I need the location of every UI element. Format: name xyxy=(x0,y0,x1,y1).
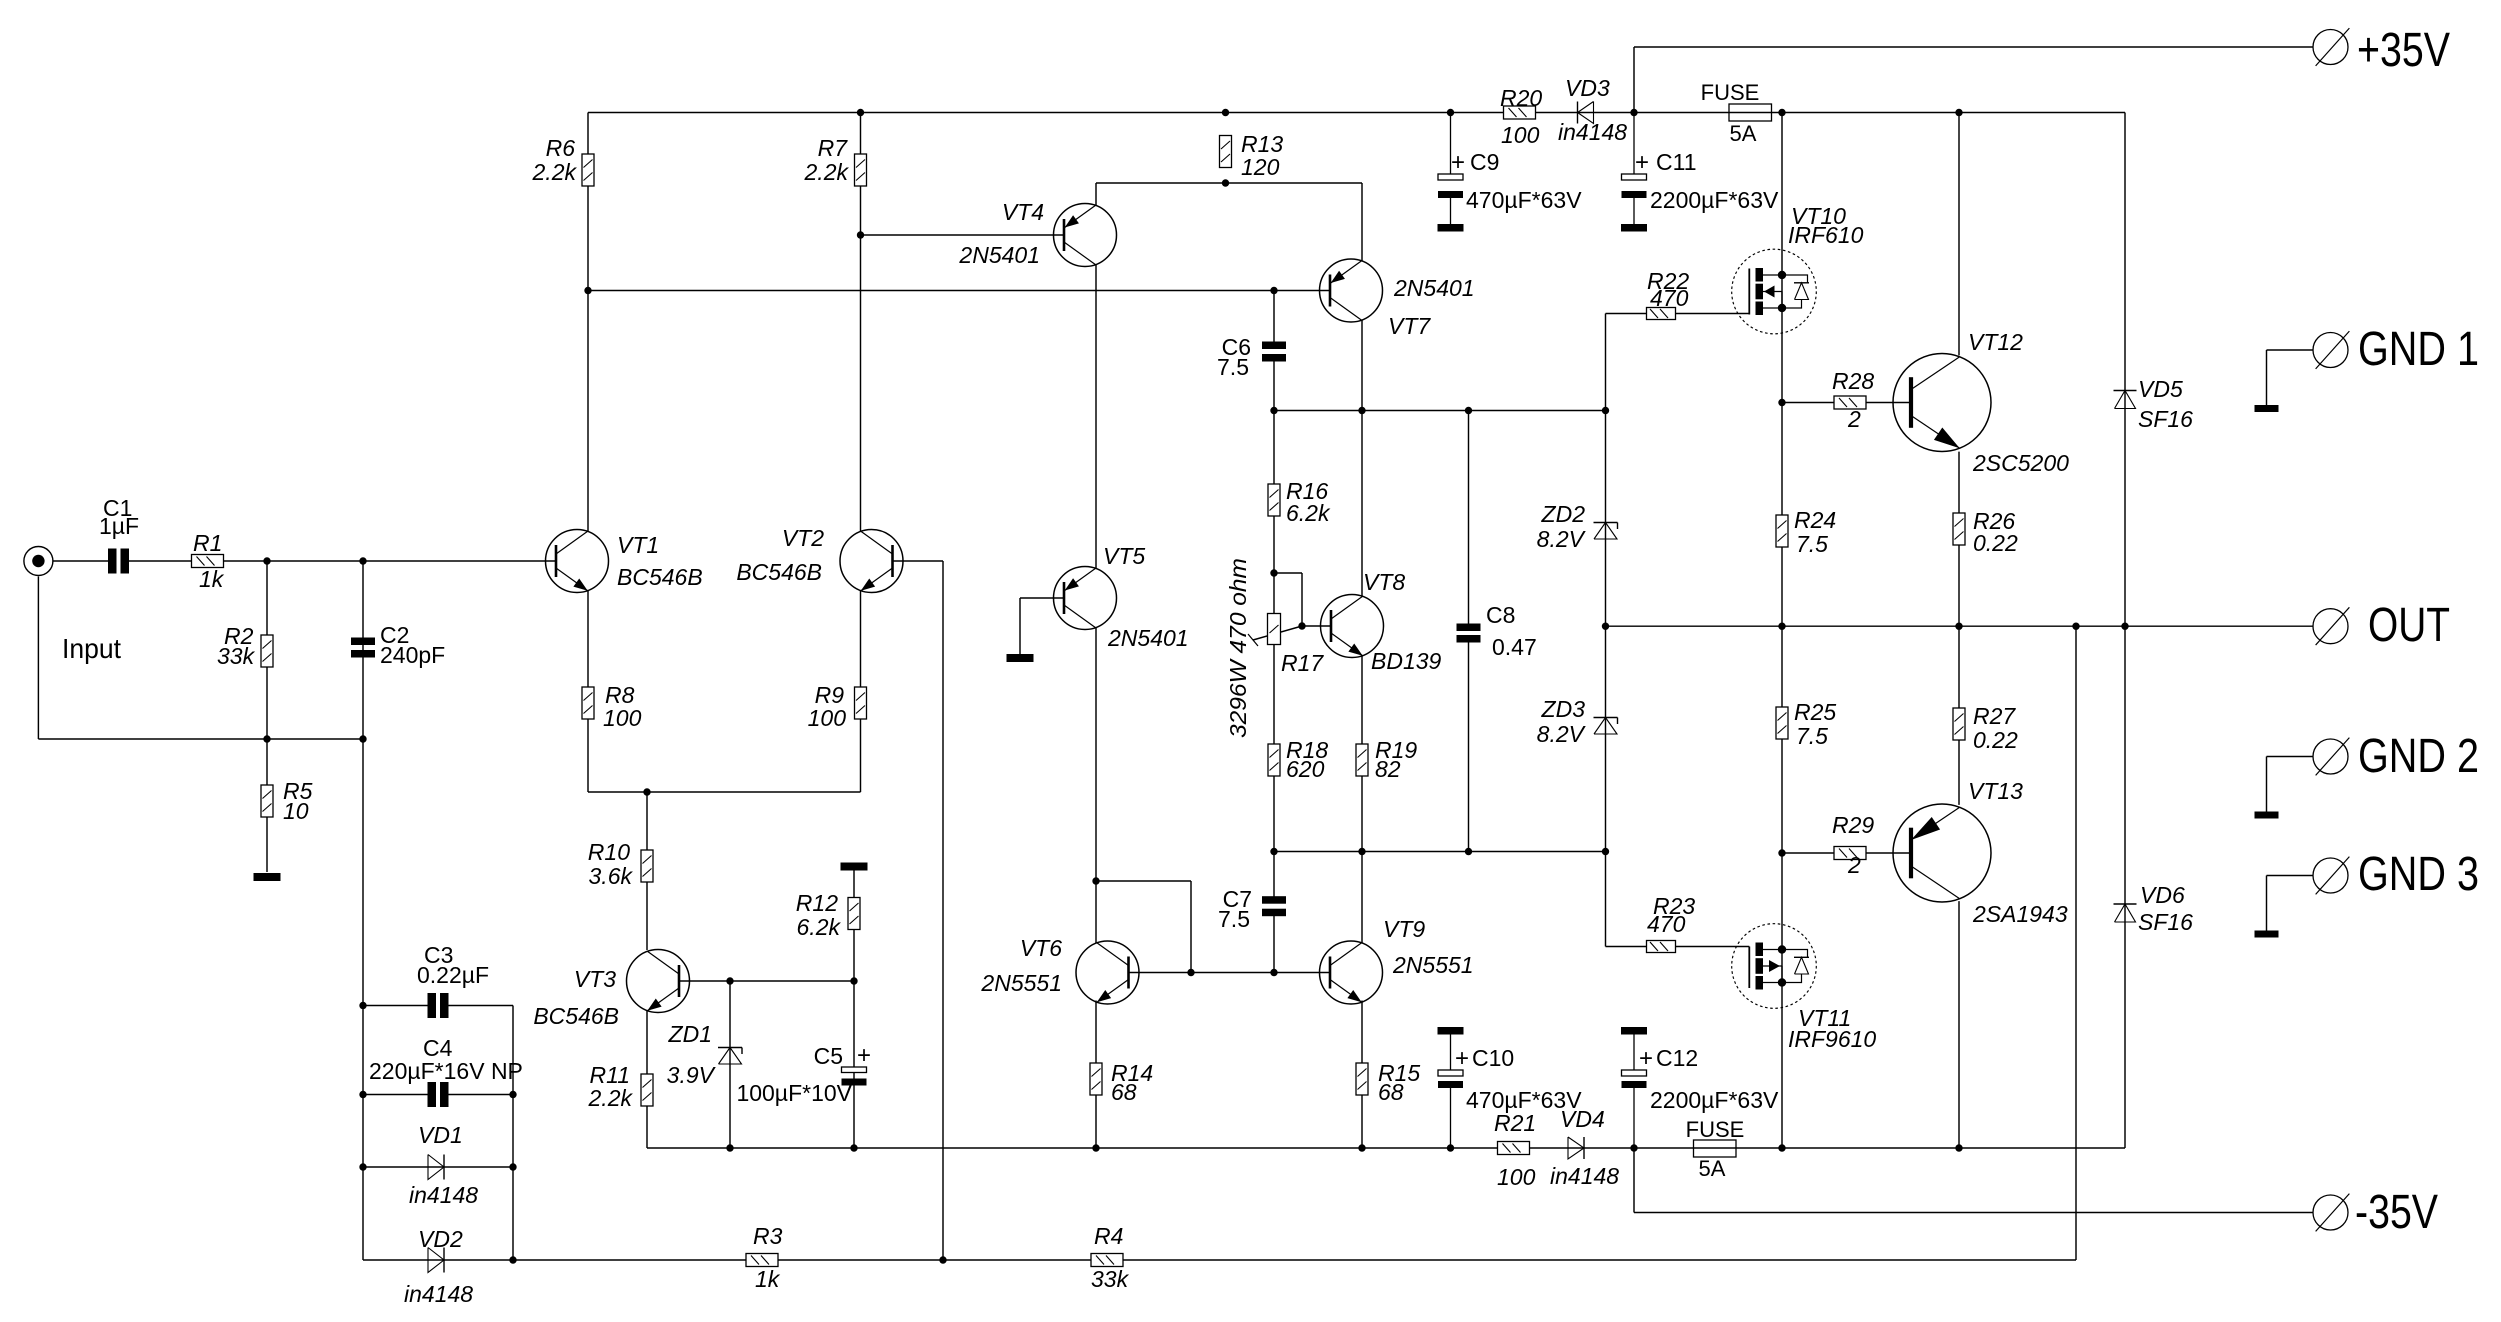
svg-text:620: 620 xyxy=(1286,756,1325,782)
svg-text:R29: R29 xyxy=(1832,812,1874,838)
svg-text:1k: 1k xyxy=(755,1266,781,1292)
svg-text:6.2k: 6.2k xyxy=(797,914,842,940)
svg-text:VT8: VT8 xyxy=(1363,569,1405,595)
svg-text:470: 470 xyxy=(1647,911,1686,937)
svg-text:100: 100 xyxy=(1497,1164,1536,1190)
svg-text:in4148: in4148 xyxy=(404,1281,473,1307)
svg-text:in4148: in4148 xyxy=(409,1182,478,1208)
svg-text:7.5: 7.5 xyxy=(1796,723,1828,749)
svg-text:R21: R21 xyxy=(1494,1110,1536,1136)
svg-text:VD3: VD3 xyxy=(1565,75,1610,101)
svg-text:VD5: VD5 xyxy=(2138,376,2183,402)
svg-text:R6: R6 xyxy=(546,135,576,161)
svg-text:VT2: VT2 xyxy=(782,525,824,551)
svg-text:7.5: 7.5 xyxy=(1796,531,1828,557)
svg-text:R24: R24 xyxy=(1794,507,1836,533)
svg-text:VT1: VT1 xyxy=(617,532,659,558)
svg-text:VT9: VT9 xyxy=(1383,916,1425,942)
svg-text:10: 10 xyxy=(283,798,309,824)
svg-text:ZD2: ZD2 xyxy=(1541,501,1586,527)
svg-text:2N5551: 2N5551 xyxy=(980,970,1062,996)
svg-text:+: + xyxy=(1451,149,1465,176)
svg-text:8.2V: 8.2V xyxy=(1537,721,1587,747)
svg-text:VT6: VT6 xyxy=(1020,935,1062,961)
svg-text:VT5: VT5 xyxy=(1103,543,1145,569)
svg-text:100: 100 xyxy=(808,705,847,731)
svg-text:C8: C8 xyxy=(1486,602,1515,628)
svg-text:33k: 33k xyxy=(217,643,256,669)
svg-text:VT12: VT12 xyxy=(1968,329,2023,355)
svg-text:R4: R4 xyxy=(1094,1223,1123,1249)
svg-text:SF16: SF16 xyxy=(2138,406,2193,432)
svg-text:5A: 5A xyxy=(1699,1156,1726,1181)
svg-text:0.47: 0.47 xyxy=(1492,634,1537,660)
svg-text:OUT: OUT xyxy=(2368,599,2450,652)
svg-text:120: 120 xyxy=(1241,154,1280,180)
svg-text:0.22: 0.22 xyxy=(1973,530,2018,556)
svg-text:VD1: VD1 xyxy=(418,1122,463,1148)
svg-text:7.5: 7.5 xyxy=(1218,906,1250,932)
svg-text:+: + xyxy=(1635,149,1649,176)
svg-text:2.2k: 2.2k xyxy=(532,159,578,185)
svg-text:0.22: 0.22 xyxy=(1973,727,2018,753)
svg-text:100: 100 xyxy=(603,705,642,731)
svg-text:68: 68 xyxy=(1378,1079,1404,1105)
svg-text:BC546B: BC546B xyxy=(617,564,703,590)
svg-text:C11: C11 xyxy=(1656,149,1697,175)
svg-text:7.5: 7.5 xyxy=(1217,354,1249,380)
svg-text:8.2V: 8.2V xyxy=(1537,526,1587,552)
svg-text:33k: 33k xyxy=(1091,1266,1130,1292)
svg-text:2.2k: 2.2k xyxy=(588,1085,634,1111)
svg-text:ZD1: ZD1 xyxy=(668,1021,712,1047)
svg-text:100: 100 xyxy=(1501,122,1540,148)
svg-text:IRF610: IRF610 xyxy=(1788,222,1864,248)
svg-text:470µF*63V: 470µF*63V xyxy=(1466,187,1582,213)
svg-text:2200µF*63V: 2200µF*63V xyxy=(1650,1087,1779,1113)
svg-text:220µF*16V NP: 220µF*16V NP xyxy=(369,1058,523,1084)
svg-text:1k: 1k xyxy=(199,566,225,592)
svg-text:GND 1: GND 1 xyxy=(2358,323,2479,376)
svg-text:FUSE: FUSE xyxy=(1686,1117,1745,1142)
svg-text:BD139: BD139 xyxy=(1371,648,1442,674)
svg-text:+: + xyxy=(1455,1045,1469,1072)
svg-text:VD6: VD6 xyxy=(2140,882,2185,908)
svg-text:R17: R17 xyxy=(1281,650,1324,676)
svg-text:VD2: VD2 xyxy=(418,1226,463,1252)
svg-text:6.2k: 6.2k xyxy=(1286,500,1331,526)
svg-text:GND 2: GND 2 xyxy=(2358,730,2479,783)
svg-text:SF16: SF16 xyxy=(2138,909,2193,935)
svg-text:470µF*63V: 470µF*63V xyxy=(1466,1087,1582,1113)
svg-text:C12: C12 xyxy=(1656,1045,1698,1071)
svg-text:+: + xyxy=(857,1042,871,1069)
svg-text:R1: R1 xyxy=(193,530,222,556)
svg-text:1µF: 1µF xyxy=(99,513,139,539)
svg-text:2N5401: 2N5401 xyxy=(1107,625,1189,651)
svg-text:470: 470 xyxy=(1650,285,1689,311)
svg-text:FUSE: FUSE xyxy=(1701,80,1760,105)
svg-text:2SA1943: 2SA1943 xyxy=(1972,901,2068,927)
svg-text:2N5551: 2N5551 xyxy=(1392,952,1474,978)
svg-text:R7: R7 xyxy=(818,135,849,161)
svg-text:C10: C10 xyxy=(1472,1045,1514,1071)
svg-text:3.9V: 3.9V xyxy=(667,1062,717,1088)
svg-text:C9: C9 xyxy=(1470,149,1499,175)
svg-text:2N5401: 2N5401 xyxy=(1393,275,1475,301)
svg-text:2SC5200: 2SC5200 xyxy=(1972,450,2069,476)
svg-text:2200µF*63V: 2200µF*63V xyxy=(1650,187,1779,213)
svg-text:82: 82 xyxy=(1375,756,1401,782)
svg-text:2: 2 xyxy=(1847,852,1861,878)
svg-text:5A: 5A xyxy=(1730,121,1757,146)
svg-text:+: + xyxy=(1639,1045,1653,1072)
svg-text:100µF*10V: 100µF*10V xyxy=(736,1080,852,1106)
svg-text:in4148: in4148 xyxy=(1558,119,1627,145)
svg-text:VT3: VT3 xyxy=(574,966,616,992)
svg-text:IRF9610: IRF9610 xyxy=(1788,1026,1876,1052)
svg-text:VT13: VT13 xyxy=(1968,778,2023,804)
svg-text:R12: R12 xyxy=(796,890,838,916)
svg-text:2: 2 xyxy=(1847,406,1861,432)
svg-text:0.22µF: 0.22µF xyxy=(417,962,489,988)
svg-text:R10: R10 xyxy=(588,839,630,865)
svg-text:R25: R25 xyxy=(1794,699,1836,725)
svg-text:ZD3: ZD3 xyxy=(1541,696,1586,722)
svg-text:BC546B: BC546B xyxy=(533,1003,619,1029)
svg-text:in4148: in4148 xyxy=(1550,1163,1619,1189)
svg-text:GND 3: GND 3 xyxy=(2358,848,2479,901)
svg-text:BC546B: BC546B xyxy=(736,559,822,585)
svg-text:68: 68 xyxy=(1111,1079,1137,1105)
svg-text:3.6k: 3.6k xyxy=(589,863,634,889)
svg-text:+35V: +35V xyxy=(2357,24,2450,77)
svg-text:VT4: VT4 xyxy=(1002,199,1044,225)
svg-text:2.2k: 2.2k xyxy=(804,159,850,185)
svg-text:240pF: 240pF xyxy=(380,642,445,668)
svg-text:R28: R28 xyxy=(1832,368,1874,394)
svg-text:R20: R20 xyxy=(1500,85,1542,111)
svg-text:3296W 470 ohm: 3296W 470 ohm xyxy=(1225,558,1251,738)
svg-text:C5: C5 xyxy=(814,1043,843,1069)
svg-text:2N5401: 2N5401 xyxy=(958,242,1040,268)
svg-text:-35V: -35V xyxy=(2355,1186,2438,1239)
svg-text:Input: Input xyxy=(62,633,121,664)
svg-text:VT7: VT7 xyxy=(1388,313,1431,339)
svg-text:R3: R3 xyxy=(753,1223,783,1249)
svg-text:R27: R27 xyxy=(1973,703,2016,729)
